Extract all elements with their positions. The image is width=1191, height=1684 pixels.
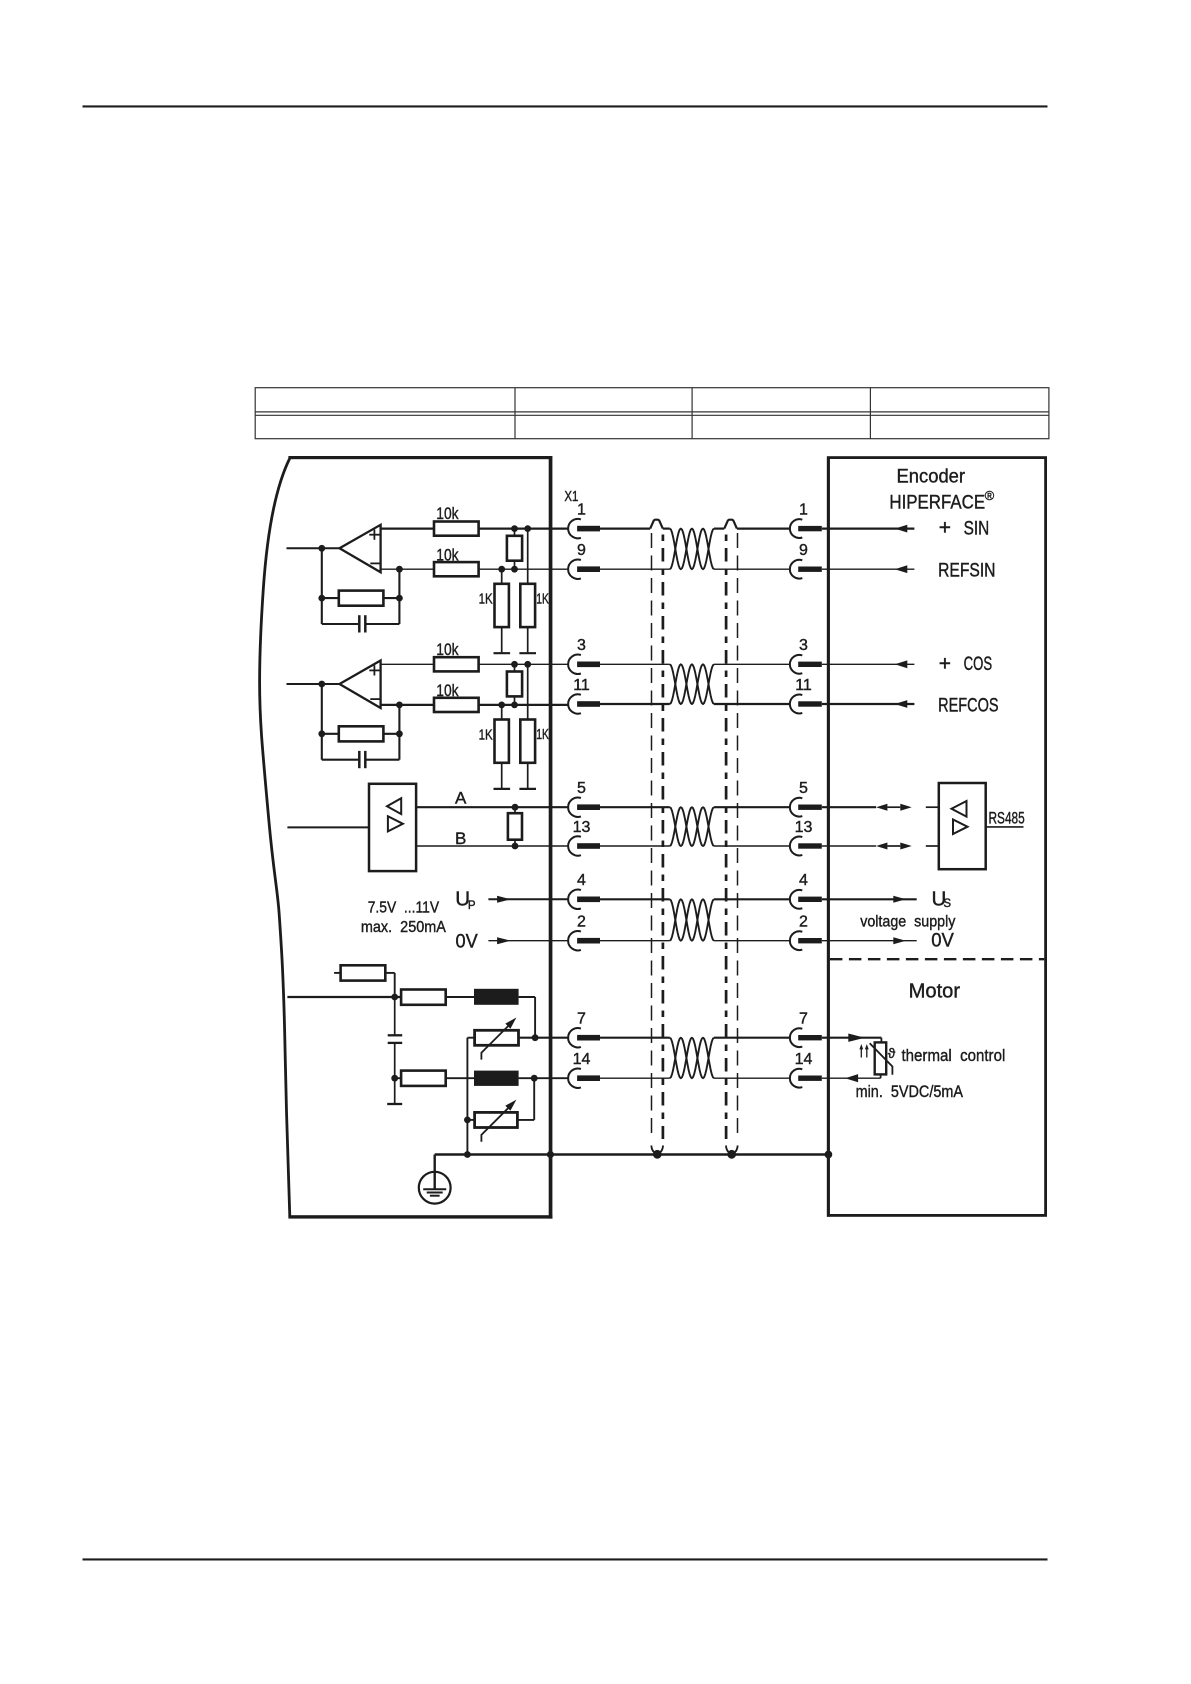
svg-text:®: ®	[985, 488, 995, 503]
wire op-amp - input	[381, 568, 434, 570]
connector pin 4 (encoder)	[790, 890, 802, 909]
feedback capacitor	[358, 615, 361, 632]
svg-text:+: +	[939, 517, 951, 540]
page bottom rule	[83, 1558, 1048, 1560]
op-amp U1	[340, 525, 381, 573]
connector pin X1-9 (drive)	[568, 560, 581, 579]
page top rule	[83, 105, 1048, 107]
svg-text:min. 5VDC/5mA: min. 5VDC/5mA	[856, 1083, 963, 1101]
earth bar long	[423, 1188, 446, 1190]
node feedback right	[396, 595, 403, 602]
connector pin 13 (encoder)	[790, 837, 802, 856]
1K right open end bar	[519, 652, 536, 654]
svg-text:ϑ: ϑ	[888, 1046, 896, 1061]
wire feedback resistor leads	[322, 597, 339, 599]
svg-text:11: 11	[573, 677, 590, 694]
resistor 10k (lower)	[434, 562, 479, 576]
drive enclosure right border (X1 front panel)	[549, 456, 553, 1219]
wire resistor to ferrite (pin14)	[446, 1077, 474, 1079]
wire resistor to ferrite	[446, 996, 474, 998]
svg-text:0V: 0V	[456, 930, 478, 952]
node output junction	[318, 681, 325, 688]
node termination bottom	[511, 566, 518, 573]
node 1K right tap	[524, 525, 531, 532]
node termination top	[511, 525, 518, 532]
cable inner shield dashed line (right)	[725, 535, 728, 1140]
wire jump over shield (right)	[724, 520, 737, 529]
wire op-amp - input	[381, 704, 434, 706]
svg-text:SIN: SIN	[964, 518, 990, 539]
node feedback left	[318, 730, 325, 737]
node thermistor lower tap	[464, 1117, 471, 1124]
1K right open end bar	[519, 788, 536, 790]
svg-text:+: +	[939, 652, 951, 675]
wire pin14 line left	[395, 1077, 401, 1079]
empty parameter table	[255, 388, 1049, 439]
cable wire left of twist	[600, 1077, 670, 1079]
wire +SIN with arrow	[822, 527, 915, 529]
svg-text:0V: 0V	[931, 930, 954, 952]
wire op-amp output	[287, 547, 340, 549]
wire 1K right leads	[527, 664, 529, 719]
node shield at encoder box	[825, 1151, 833, 1159]
filter capacitor	[388, 1034, 403, 1036]
wire thermistor left lead (upper)	[467, 1037, 474, 1039]
wire feedback right vertical	[398, 705, 400, 760]
cable wire right of twist	[714, 568, 790, 570]
node capacitor to 0V sense	[391, 1075, 398, 1082]
shield bus wire	[435, 1153, 829, 1156]
cable wire left of twist	[600, 568, 670, 570]
wire line B	[416, 845, 568, 847]
wire 10k to pin	[479, 527, 569, 529]
wire 1K left leads	[501, 705, 503, 720]
cable inner shield dashed line (left)	[662, 535, 665, 1140]
wire feedback right vertical	[398, 569, 400, 624]
svg-text:7.5V ...11V: 7.5V ...11V	[368, 900, 440, 917]
svg-text:7: 7	[799, 1011, 808, 1028]
thermal sensor diagonal	[870, 1043, 893, 1075]
cable wire left of twist	[600, 1037, 670, 1039]
svg-text:1K: 1K	[479, 591, 493, 608]
connector pin X1-2 (drive)	[568, 931, 581, 950]
wire pin 7 line	[519, 1037, 569, 1039]
buffer triangle (receive)	[387, 798, 401, 814]
shield funnel left	[651, 1146, 656, 1154]
svg-text:REFCOS: REFCOS	[938, 695, 999, 716]
connector pin X1-14 (drive)	[568, 1069, 581, 1088]
node 1K right tap	[524, 661, 531, 668]
wire thermistor left lead (lower)	[467, 1119, 474, 1121]
feedback resistor	[339, 726, 384, 741]
connector pin 1 (encoder)	[790, 519, 802, 538]
cable wire left of twist	[600, 703, 670, 705]
node B termination	[512, 843, 519, 850]
connector pin 2 (encoder)	[790, 931, 802, 950]
wire 10k to pin	[479, 568, 569, 570]
termination resistor A-B	[508, 813, 522, 840]
shield funnel right	[726, 1146, 731, 1154]
svg-text:11: 11	[795, 677, 812, 694]
termination resistor between pair	[507, 672, 522, 697]
termination resistor between pair	[507, 536, 522, 561]
node output junction	[318, 545, 325, 552]
wire into RS485 block	[287, 826, 369, 828]
svg-text:Motor: Motor	[909, 980, 961, 1002]
wire capacitor leads	[322, 759, 358, 761]
wire 0V (encoder) with arrow	[822, 940, 917, 942]
svg-text:max. 250mA: max. 250mA	[361, 919, 446, 936]
resistor 1K (left)	[495, 584, 509, 627]
cable wire left of twist	[600, 940, 670, 942]
node feedback right	[396, 730, 403, 737]
temperature arrows	[860, 1047, 862, 1058]
twisted pair thermal	[670, 1038, 714, 1079]
node pin7 junction	[532, 1034, 539, 1041]
cable wire right of twist	[714, 898, 790, 900]
encoder enclosure box	[828, 458, 1045, 1216]
svg-text:14: 14	[573, 1051, 591, 1068]
twisted pair COS	[670, 664, 714, 704]
encoder / motor dashed separator	[830, 958, 1044, 960]
cable outer shield dashed line (right)	[737, 533, 739, 1139]
series resistor (pin7 path)	[401, 990, 446, 1005]
wire capacitor top lead	[394, 997, 396, 1035]
1K left open end bar	[494, 788, 511, 790]
wire REFSIN with arrow	[822, 568, 915, 570]
wire 1K right leads	[527, 529, 529, 584]
buffer triangle (encoder transmit)	[953, 820, 968, 835]
connector pin 11 (encoder)	[790, 695, 802, 714]
wire feedback left vertical	[321, 548, 323, 624]
svg-text:1K: 1K	[536, 726, 549, 743]
svg-text:10k: 10k	[436, 641, 459, 659]
wire op-amp + input	[381, 527, 434, 529]
cable wire right of twist	[714, 806, 790, 808]
svg-text:S: S	[943, 898, 951, 910]
wire 10k to pin	[479, 704, 569, 706]
svg-text:3: 3	[799, 637, 808, 654]
svg-text:1: 1	[799, 502, 808, 519]
node pin14 junction	[531, 1075, 538, 1082]
earth bar middle	[427, 1192, 443, 1194]
protective earth symbol circle	[419, 1172, 451, 1204]
svg-text:Encoder: Encoder	[897, 465, 966, 487]
connector pin 14 (encoder)	[790, 1069, 802, 1088]
drive enclosure torn left border	[260, 458, 290, 1217]
resistor 1K (right)	[520, 584, 535, 627]
wire pin 14 line	[519, 1077, 569, 1079]
wire thermistor right to pin14 line	[517, 1119, 534, 1121]
wire jump over shield (left)	[650, 520, 663, 529]
wire 1K left leads	[501, 569, 503, 584]
wire pull-up to node	[385, 972, 394, 974]
svg-text:9: 9	[799, 542, 808, 559]
svg-text:REFSIN: REFSIN	[938, 561, 995, 582]
wire REFCOS with arrow	[822, 703, 915, 705]
node - input junction	[396, 566, 403, 573]
svg-text:HIPERFACE: HIPERFACE	[889, 491, 985, 513]
drive enclosure bottom border	[288, 1215, 552, 1218]
wire pin7 to thermal sensor	[822, 1037, 882, 1039]
svg-text:1: 1	[577, 502, 586, 519]
capacitor open end bar	[387, 1103, 402, 1105]
connector pin X1-7 (drive)	[568, 1028, 581, 1047]
wire capacitor leads	[322, 623, 358, 625]
cable wire right of twist	[714, 1037, 790, 1039]
wire line A	[416, 806, 568, 808]
connector pin X1-11 (drive)	[568, 694, 581, 713]
resistor 10k (upper)	[434, 522, 479, 536]
connector pin X1-3 (drive)	[568, 655, 581, 674]
twisted pair RS485	[670, 807, 714, 846]
svg-text:P: P	[468, 900, 476, 912]
node termination top	[511, 661, 518, 668]
connector pin X1-5 (drive)	[568, 798, 581, 817]
svg-text:COS: COS	[964, 654, 993, 675]
wire RS485 B bidirectional arrows	[822, 845, 876, 847]
connector pin X1-1 (drive)	[568, 519, 581, 538]
thermal sensor (motor PTC)	[875, 1042, 887, 1074]
svg-text:2: 2	[577, 914, 586, 931]
encoder enclosure left border (thick)	[827, 457, 830, 1217]
svg-text:10k: 10k	[436, 505, 459, 523]
wire UP supply with arrow	[488, 898, 568, 900]
cable wire left of twist (jumps shield)	[600, 527, 650, 529]
node feedback left	[318, 595, 325, 602]
wire op-amp + input	[381, 663, 434, 665]
wire pin14 from thermal sensor	[880, 1074, 882, 1078]
wire RS485 A bidirectional arrows	[822, 806, 876, 808]
node shield right pair	[727, 1150, 736, 1159]
wire US with arrow	[822, 898, 917, 900]
drive enclosure top border	[288, 456, 552, 459]
svg-text:4: 4	[799, 872, 808, 889]
node - input junction	[396, 702, 403, 709]
protective earth stem	[434, 1155, 436, 1190]
ferrite bead (pin14 path)	[474, 1071, 519, 1086]
connector pin 9 (encoder)	[790, 560, 802, 579]
cable wire left of twist	[600, 898, 670, 900]
wire feedback left vertical	[321, 684, 323, 760]
thermistor arrow (lower)	[481, 1108, 508, 1142]
PTC thermistor (lower)	[475, 1112, 518, 1127]
svg-text:7: 7	[577, 1011, 586, 1028]
thermistor arrow (upper)	[481, 1026, 508, 1060]
svg-text:thermal control: thermal control	[902, 1047, 1006, 1065]
wire capacitor bottom lead	[394, 1043, 396, 1104]
wire thermistor common vertical	[466, 1038, 468, 1155]
svg-text:voltage supply: voltage supply	[860, 913, 955, 930]
svg-text:13: 13	[795, 819, 813, 836]
cable wire left of twist	[600, 663, 670, 665]
wire +COS with arrow	[822, 663, 915, 665]
node sense / filter junction	[391, 994, 398, 1001]
node 1K left tap	[498, 566, 505, 573]
wire op-amp output	[287, 683, 340, 685]
buffer triangle (transmit)	[388, 816, 403, 831]
node A termination	[512, 804, 519, 811]
wire pull-up left stub	[334, 972, 341, 974]
svg-text:5: 5	[577, 780, 586, 797]
series resistor (pin14 path)	[401, 1071, 446, 1086]
node shield at drive network	[464, 1151, 471, 1158]
cable wire right of twist	[714, 703, 790, 705]
svg-text:B: B	[455, 829, 466, 848]
svg-text:10k: 10k	[436, 546, 459, 564]
PTC thermistor (upper)	[475, 1030, 519, 1045]
svg-text:3: 3	[577, 637, 586, 654]
wire motor sense line	[287, 996, 401, 998]
cable wire right of twist	[714, 845, 790, 847]
svg-text:2: 2	[799, 914, 808, 931]
svg-text:10k: 10k	[436, 682, 459, 700]
connector pin 5 (encoder)	[790, 798, 802, 817]
cable wire right of twist (jumps shield)	[714, 527, 724, 529]
wire 10k to pin	[479, 663, 569, 665]
svg-text:1K: 1K	[536, 590, 549, 607]
connector pin 7 (encoder)	[790, 1028, 802, 1047]
svg-text:5: 5	[799, 780, 808, 797]
node termination bottom	[511, 702, 518, 709]
feedback resistor	[339, 591, 384, 606]
svg-text:1K: 1K	[479, 726, 493, 743]
earth bar short	[430, 1195, 440, 1197]
wire feedback resistor leads	[322, 733, 339, 735]
connector pin 3 (encoder)	[790, 655, 802, 674]
RS485 driver block (drive side)	[369, 784, 416, 871]
svg-text:A: A	[455, 788, 467, 807]
resistor (pull-up, motor section)	[341, 965, 386, 980]
cable outer shield dashed line (left)	[651, 533, 653, 1139]
svg-text:13: 13	[573, 819, 591, 836]
twisted pair supply	[670, 899, 714, 940]
buffer triangle (encoder receive)	[952, 801, 967, 817]
wire 0V with arrow	[488, 940, 568, 942]
connector pin X1-13 (drive)	[568, 836, 581, 855]
1K left open end bar	[494, 652, 511, 654]
svg-text:RS485: RS485	[989, 810, 1025, 828]
node shield at drive box edge	[547, 1151, 554, 1158]
cable wire right of twist	[714, 663, 790, 665]
feedback capacitor	[358, 751, 361, 768]
resistor 10k (upper)	[434, 657, 479, 671]
op-amp U2	[340, 661, 381, 709]
cable wire right of twist	[714, 1077, 790, 1079]
connector pin X1-4 (drive)	[568, 890, 581, 909]
svg-text:14: 14	[795, 1051, 813, 1068]
wire RS485 stub	[986, 826, 1024, 828]
cable wire left of twist	[600, 845, 670, 847]
twisted pair SIN	[670, 529, 714, 570]
cable wire left of twist	[600, 806, 670, 808]
node shield left pair	[653, 1150, 662, 1159]
resistor 10k (lower)	[434, 698, 479, 712]
wire ferrite to pin7 line	[519, 996, 536, 998]
RS485 transceiver block (encoder side)	[939, 783, 986, 869]
resistor 1K (left)	[495, 720, 509, 763]
node 1K left tap	[498, 702, 505, 709]
ferrite bead (pin7 path)	[474, 989, 519, 1005]
svg-text:4: 4	[577, 872, 586, 889]
svg-text:9: 9	[577, 542, 586, 559]
resistor 1K (right)	[520, 720, 535, 763]
cable wire right of twist	[714, 940, 790, 942]
